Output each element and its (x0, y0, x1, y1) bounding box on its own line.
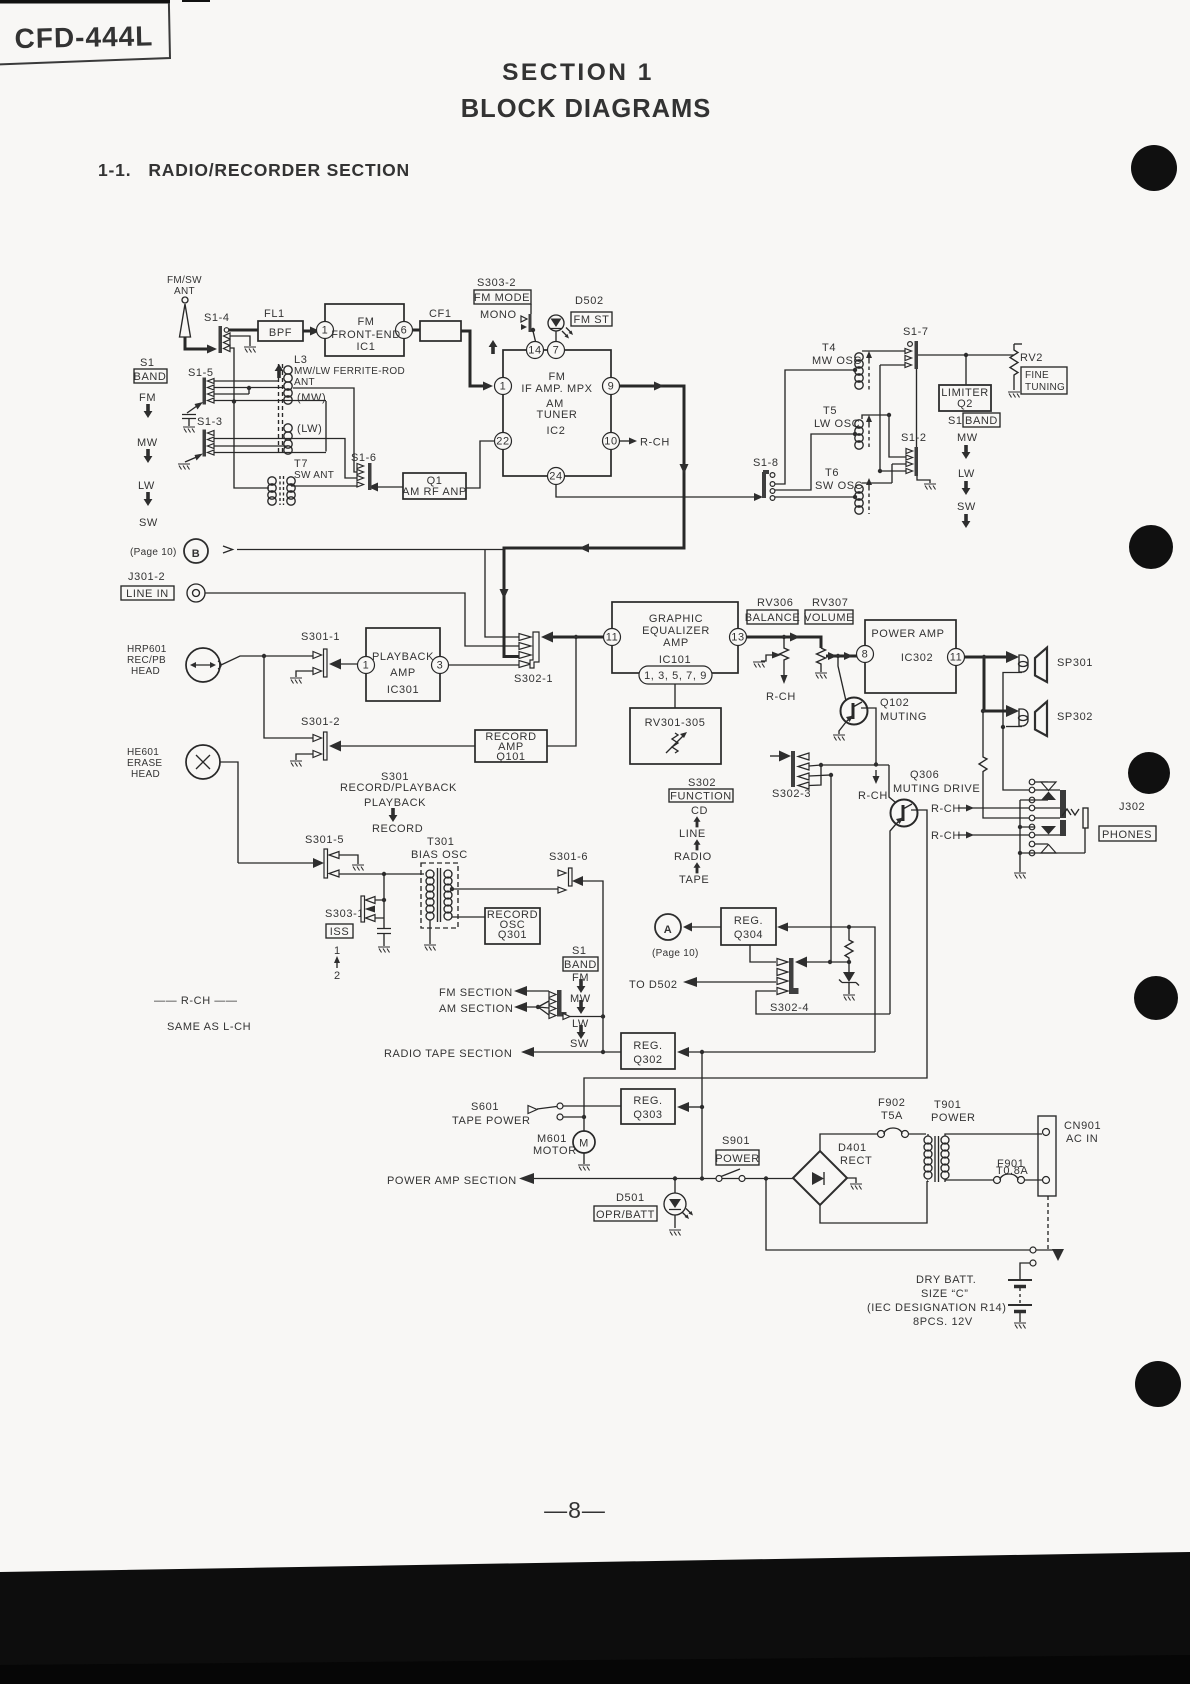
svg-text:S302-1: S302-1 (514, 673, 553, 685)
svg-text:VOLUME: VOLUME (804, 612, 854, 624)
svg-text:(IEC DESIGNATION R14): (IEC DESIGNATION R14) (867, 1302, 1007, 1314)
svg-text:EQUALIZER: EQUALIZER (642, 625, 710, 637)
svg-text:8PCS. 12V: 8PCS. 12V (913, 1316, 973, 1328)
svg-text:MW: MW (137, 437, 158, 449)
svg-text:FUNCTION: FUNCTION (670, 791, 732, 803)
svg-text:Q102: Q102 (880, 697, 909, 709)
svg-text:AMP: AMP (390, 667, 416, 679)
svg-text:11: 11 (950, 652, 963, 664)
svg-text:13: 13 (731, 632, 744, 644)
svg-text:D401: D401 (838, 1142, 867, 1154)
svg-text:RV307: RV307 (812, 597, 848, 609)
svg-text:POWER: POWER (715, 1153, 760, 1165)
svg-text:IC1: IC1 (357, 341, 376, 353)
svg-text:LW OSC: LW OSC (814, 418, 860, 430)
svg-text:D501: D501 (616, 1192, 645, 1204)
svg-text:SW ANT: SW ANT (294, 470, 334, 481)
svg-text:FM SECTION: FM SECTION (439, 987, 513, 999)
svg-text:S302: S302 (688, 777, 716, 789)
svg-text:RADIO TAPE SECTION: RADIO TAPE SECTION (384, 1048, 512, 1060)
svg-text:BAND: BAND (965, 415, 998, 427)
svg-text:—— R-CH ——: —— R-CH —— (154, 995, 238, 1007)
svg-text:J302: J302 (1119, 801, 1145, 813)
svg-text:Q304: Q304 (734, 929, 763, 941)
svg-text:REG.: REG. (633, 1040, 662, 1052)
svg-text:LINE: LINE (679, 828, 706, 840)
svg-text:T5: T5 (823, 405, 837, 417)
svg-text:REG.: REG. (734, 915, 763, 927)
svg-text:GRAPHIC: GRAPHIC (649, 613, 703, 625)
svg-text:S1-3: S1-3 (197, 416, 223, 428)
svg-text:2: 2 (334, 970, 341, 982)
svg-text:CD: CD (691, 805, 708, 817)
svg-text:6: 6 (401, 325, 408, 337)
svg-text:14: 14 (528, 345, 541, 357)
svg-text:S302-4: S302-4 (770, 1002, 809, 1014)
svg-text:CF1: CF1 (429, 308, 452, 320)
svg-text:T5A: T5A (881, 1110, 903, 1122)
svg-text:LW: LW (138, 480, 155, 492)
svg-text:(Page 10): (Page 10) (130, 547, 177, 558)
svg-text:M601: M601 (537, 1133, 567, 1145)
svg-text:SW: SW (957, 501, 976, 513)
svg-text:3: 3 (437, 660, 444, 672)
svg-text:RECORD: RECORD (372, 823, 423, 835)
svg-text:S301-2: S301-2 (301, 716, 340, 728)
svg-text:S302-3: S302-3 (772, 788, 811, 800)
svg-text:FM ST: FM ST (574, 314, 610, 326)
svg-text:R-CH: R-CH (931, 803, 961, 815)
svg-text:Q301: Q301 (498, 929, 527, 941)
svg-text:PHONES: PHONES (1102, 829, 1152, 841)
svg-text:Q2: Q2 (957, 398, 973, 410)
svg-text:POWER: POWER (931, 1112, 976, 1124)
svg-text:TAPE: TAPE (679, 874, 709, 886)
svg-text:AMP: AMP (663, 637, 689, 649)
svg-text:PLAYBACK: PLAYBACK (364, 797, 426, 809)
svg-text:BPF: BPF (269, 327, 292, 339)
svg-text:RADIO: RADIO (674, 851, 712, 863)
svg-text:8: 8 (862, 649, 869, 661)
svg-text:L3: L3 (294, 354, 307, 366)
svg-text:RV2: RV2 (1020, 352, 1043, 364)
svg-text:FM: FM (548, 371, 565, 383)
svg-text:S301-5: S301-5 (305, 834, 344, 846)
svg-text:FL1: FL1 (264, 308, 285, 320)
svg-text:ERASE: ERASE (127, 758, 162, 769)
svg-text:BAND: BAND (134, 371, 167, 383)
svg-text:POWER AMP: POWER AMP (871, 628, 944, 640)
svg-text:HE601: HE601 (127, 747, 159, 758)
svg-text:MONO: MONO (480, 309, 517, 321)
svg-text:TO D502: TO D502 (629, 979, 678, 991)
svg-text:T301: T301 (427, 836, 454, 848)
svg-text:SAME AS L-CH: SAME AS L-CH (167, 1021, 251, 1033)
svg-text:S303-1: S303-1 (325, 908, 364, 920)
svg-text:1, 3, 5, 7, 9: 1, 3, 5, 7, 9 (644, 670, 707, 682)
svg-text:S1-5: S1-5 (188, 367, 214, 379)
svg-text:FM MODE: FM MODE (474, 292, 530, 304)
svg-text:S901: S901 (722, 1135, 750, 1147)
svg-text:LINE IN: LINE IN (126, 588, 169, 600)
svg-text:A: A (664, 924, 673, 936)
svg-text:REG.: REG. (633, 1095, 662, 1107)
svg-text:BLOCK DIAGRAMS: BLOCK DIAGRAMS (461, 95, 712, 123)
svg-text:1: 1 (363, 660, 370, 672)
svg-text:7: 7 (553, 345, 560, 357)
svg-text:BALANCE: BALANCE (745, 612, 801, 624)
svg-text:SP302: SP302 (1057, 711, 1093, 723)
svg-text:TAPE POWER: TAPE POWER (452, 1115, 531, 1127)
svg-text:RV301-305: RV301-305 (645, 717, 706, 729)
svg-text:1: 1 (334, 945, 341, 957)
svg-text:10: 10 (604, 436, 617, 448)
svg-text:Q306: Q306 (910, 769, 939, 781)
svg-text:POWER AMP SECTION: POWER AMP SECTION (387, 1175, 517, 1187)
svg-text:ANT: ANT (294, 377, 315, 388)
svg-text:MOTOR: MOTOR (533, 1145, 577, 1157)
svg-text:1: 1 (500, 381, 507, 393)
svg-text:Q302: Q302 (633, 1054, 662, 1066)
svg-text:9: 9 (608, 381, 615, 393)
svg-text:FM: FM (357, 316, 374, 328)
svg-text:22: 22 (496, 436, 509, 448)
svg-text:1-1. RADIO/RECORDER SECTION: 1-1. RADIO/RECORDER SECTION (98, 160, 410, 180)
svg-text:FRONT-END: FRONT-END (331, 329, 401, 341)
svg-text:S1-4: S1-4 (204, 312, 230, 324)
svg-text:D502: D502 (575, 295, 604, 307)
svg-text:—8—: —8— (544, 1497, 606, 1523)
svg-text:TUNING: TUNING (1025, 382, 1065, 393)
svg-text:T7: T7 (294, 458, 308, 470)
svg-text:HEAD: HEAD (131, 769, 160, 780)
svg-text:(MW): (MW) (297, 392, 326, 404)
svg-text:MUTING DRIVE: MUTING DRIVE (893, 783, 980, 795)
svg-text:CN901: CN901 (1064, 1120, 1101, 1132)
svg-text:T4: T4 (822, 342, 836, 354)
svg-text:AC IN: AC IN (1066, 1133, 1098, 1145)
svg-text:AM SECTION: AM SECTION (439, 1003, 513, 1015)
svg-text:ISS: ISS (330, 926, 350, 938)
svg-text:S1-6: S1-6 (351, 452, 377, 464)
svg-text:MW/LW FERRITE-ROD: MW/LW FERRITE-ROD (294, 366, 405, 377)
svg-text:1: 1 (322, 325, 329, 337)
svg-text:S301-1: S301-1 (301, 631, 340, 643)
svg-text:S1: S1 (948, 415, 963, 427)
svg-text:11: 11 (606, 632, 619, 644)
svg-text:R-CH: R-CH (766, 691, 796, 703)
svg-text:IC101: IC101 (659, 654, 691, 666)
svg-text:SW: SW (570, 1038, 589, 1050)
svg-text:24: 24 (549, 471, 562, 483)
svg-text:HEAD: HEAD (131, 666, 160, 677)
svg-text:MW: MW (957, 432, 978, 444)
svg-text:DRY BATT.: DRY BATT. (916, 1274, 976, 1286)
svg-text:BAND: BAND (564, 959, 597, 971)
svg-text:S601: S601 (471, 1101, 499, 1113)
svg-text:R-CH: R-CH (640, 437, 670, 449)
svg-text:R-CH: R-CH (931, 830, 961, 842)
svg-text:RECORD/PLAYBACK: RECORD/PLAYBACK (340, 782, 457, 794)
svg-text:R-CH: R-CH (858, 790, 888, 802)
svg-text:FM/SW: FM/SW (167, 275, 202, 286)
svg-text:S1-2: S1-2 (901, 432, 927, 444)
svg-text:IF AMP. MPX: IF AMP. MPX (521, 383, 592, 395)
svg-text:T6: T6 (825, 467, 839, 479)
svg-text:IC302: IC302 (901, 652, 933, 664)
svg-text:SW: SW (139, 517, 158, 529)
svg-text:FINE: FINE (1025, 370, 1049, 381)
svg-text:SIZE “C”: SIZE “C” (921, 1288, 969, 1300)
svg-text:AM RF ANP: AM RF ANP (402, 486, 467, 498)
svg-text:Q303: Q303 (633, 1109, 662, 1121)
svg-text:S1: S1 (572, 945, 587, 957)
svg-text:J301-2: J301-2 (128, 571, 165, 583)
svg-text:CFD-444L: CFD-444L (14, 20, 153, 54)
svg-text:T0.8A: T0.8A (996, 1165, 1028, 1177)
svg-text:S301-6: S301-6 (549, 851, 588, 863)
svg-text:T901: T901 (934, 1099, 961, 1111)
svg-text:F902: F902 (878, 1097, 905, 1109)
svg-text:FM: FM (139, 392, 156, 404)
svg-text:Q101: Q101 (496, 751, 525, 763)
svg-text:S1: S1 (140, 357, 155, 369)
svg-text:(LW): (LW) (297, 423, 322, 435)
svg-text:RECT: RECT (840, 1155, 872, 1167)
svg-text:B: B (192, 548, 201, 560)
svg-text:ANT: ANT (174, 286, 195, 297)
svg-text:PLAYBACK: PLAYBACK (372, 651, 434, 663)
svg-text:MUTING: MUTING (880, 711, 927, 723)
svg-text:IC301: IC301 (387, 684, 419, 696)
svg-text:RV306: RV306 (757, 597, 793, 609)
svg-text:SECTION 1: SECTION 1 (502, 59, 654, 86)
svg-text:BIAS OSC: BIAS OSC (411, 849, 468, 861)
svg-text:S303-2: S303-2 (477, 277, 516, 289)
svg-text:TUNER: TUNER (537, 409, 578, 421)
svg-text:IC2: IC2 (547, 425, 566, 437)
svg-text:M: M (579, 1138, 589, 1150)
svg-text:S1-8: S1-8 (753, 457, 779, 469)
svg-text:HRP601: HRP601 (127, 644, 167, 655)
svg-text:REC/PB: REC/PB (127, 655, 166, 666)
svg-text:SP301: SP301 (1057, 657, 1093, 669)
svg-text:(Page 10): (Page 10) (652, 948, 699, 959)
svg-text:OPR/BATT: OPR/BATT (596, 1209, 655, 1221)
svg-text:LW: LW (958, 468, 975, 480)
svg-text:S1-7: S1-7 (903, 326, 929, 338)
